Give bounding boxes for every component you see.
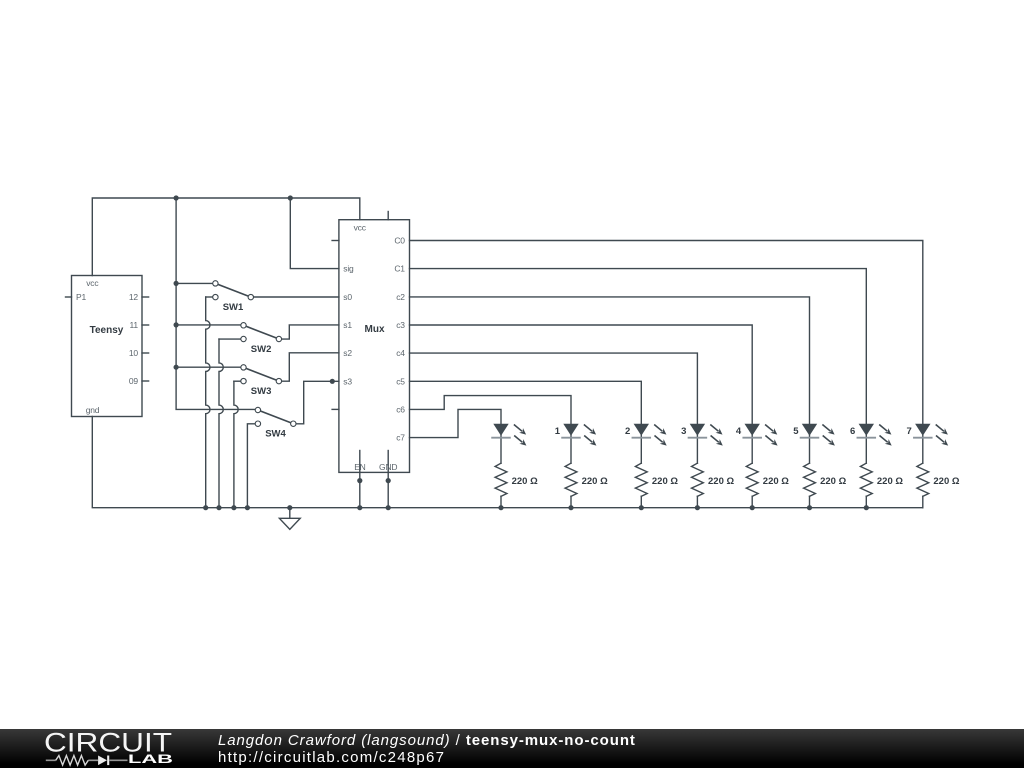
- svg-text:220 Ω: 220 Ω: [512, 476, 538, 487]
- svg-text:SW2: SW2: [251, 344, 272, 355]
- svg-text:220 Ω: 220 Ω: [877, 476, 903, 487]
- Mux top pin stub: [387, 212, 389, 220]
- wire bus to SW1 pole: [176, 282, 215, 284]
- wire SW1 common to Mux s0: [251, 296, 339, 298]
- wire resistor R8 to ground rail: [922, 496, 924, 508]
- junction ground rail / R4: [695, 505, 700, 510]
- junction ground rail / ground symbol: [287, 505, 292, 510]
- junction ground rail / R1: [498, 505, 503, 510]
- svg-text:vcc: vcc: [354, 222, 367, 232]
- IC P1 Teensy body: [72, 276, 143, 417]
- svg-text:09: 09: [129, 376, 139, 386]
- switch SW2 terminal circles: [241, 323, 246, 328]
- junction ground rail / SW4 wire: [245, 505, 250, 510]
- svg-text:vcc: vcc: [86, 278, 99, 288]
- Mux left pin stub (row 1): [332, 240, 339, 242]
- wire SW1 throw2 down to ground rail (hops): [206, 297, 210, 508]
- switch SW1 lever: [215, 283, 250, 297]
- wire bus to SW2 pole: [176, 324, 243, 326]
- wire SW4 common to Mux s3: [293, 381, 339, 424]
- svg-text:c7: c7: [396, 433, 405, 443]
- junction ground rail / R6: [807, 505, 812, 510]
- Teensy pin 10 stub: [142, 352, 149, 354]
- LED D5: [743, 424, 777, 446]
- wire Mux C0 to LED D8 column: [410, 241, 923, 464]
- wire vcc rail to Mux sig: [290, 198, 339, 269]
- Mux GND pin wire to ground rail: [387, 451, 389, 508]
- svg-text:SW1: SW1: [223, 302, 244, 313]
- svg-text:C0: C0: [394, 236, 405, 246]
- svg-text:2: 2: [625, 426, 630, 437]
- switch SW2 lever: [244, 325, 279, 339]
- svg-text:6: 6: [850, 426, 855, 437]
- svg-text:220 Ω: 220 Ω: [820, 476, 846, 487]
- CircuitLab logo: [0, 729, 210, 768]
- Mux left pin stub (row 7): [332, 408, 339, 410]
- wire Mux c6 to LED D2 column: [410, 396, 572, 464]
- IC Mux body: [339, 220, 410, 473]
- wire Teensy gnd to ground rail: [92, 417, 923, 508]
- svg-text:C1: C1: [394, 264, 405, 274]
- junction ground rail / R7: [864, 505, 869, 510]
- wire SW2 throw2 down to ground rail (hops): [219, 339, 223, 508]
- junction top rail / sig drop: [288, 195, 293, 200]
- svg-text:LAB: LAB: [128, 753, 173, 766]
- svg-text:5: 5: [793, 426, 799, 437]
- LED D7: [857, 424, 891, 446]
- resistor R2: [565, 463, 577, 496]
- wire Mux C1 to LED D7 column: [410, 269, 867, 464]
- svg-text:10: 10: [129, 348, 139, 358]
- junction EN pin end: [357, 478, 362, 483]
- wire SW1 throw2 to down-bus: [206, 296, 216, 298]
- wire SW4 throw2 down to ground rail: [247, 424, 258, 508]
- junction ground rail / SW3 wire: [231, 505, 236, 510]
- LED D2: [562, 424, 596, 446]
- svg-text:sig: sig: [343, 264, 354, 274]
- LED D6: [801, 424, 835, 446]
- wire Teensy vcc to Mux vcc (top rail): [92, 198, 360, 276]
- wire resistor R2 to ground rail: [570, 496, 572, 508]
- Teensy pin 09 stub: [142, 380, 149, 382]
- svg-text:220 Ω: 220 Ω: [582, 476, 608, 487]
- LED D8: [914, 424, 948, 446]
- footer credit text: [218, 732, 636, 767]
- svg-text:P1: P1: [76, 292, 86, 302]
- wire resistor R6 to ground rail: [809, 496, 811, 508]
- junction ground rail / R3: [639, 505, 644, 510]
- junction ground rail / SW1 wire: [203, 505, 208, 510]
- wire SW3 throw2 to down-bus: [234, 380, 244, 382]
- junction ground rail / EN: [357, 505, 362, 510]
- junction ground rail / R5: [750, 505, 755, 510]
- wire resistor R4 to ground rail: [696, 496, 698, 508]
- svg-text:3: 3: [681, 426, 686, 437]
- wire Mux c3 to LED D5 column: [410, 325, 753, 463]
- svg-text:Mux: Mux: [365, 324, 385, 335]
- svg-text:SW4: SW4: [265, 429, 286, 440]
- LED D3: [632, 424, 666, 446]
- svg-text:7: 7: [907, 426, 912, 437]
- ground symbol: [289, 508, 291, 519]
- junction GND pin end: [386, 478, 391, 483]
- svg-text:s2: s2: [343, 348, 352, 358]
- switch SW4 lever: [258, 410, 293, 424]
- svg-text:220 Ω: 220 Ω: [763, 476, 789, 487]
- wire SW3 throw2 down to ground rail (hops): [234, 381, 238, 508]
- logo resistor-diode glyph: [46, 759, 128, 761]
- svg-text:s1: s1: [343, 320, 352, 330]
- svg-text:s3: s3: [343, 376, 352, 386]
- wire SW3 common to Mux s2: [279, 353, 339, 381]
- svg-text:SW3: SW3: [251, 386, 272, 397]
- wire resistor R7 to ground rail: [865, 496, 867, 508]
- svg-text:Teensy: Teensy: [90, 325, 124, 336]
- resistor R8: [917, 463, 929, 496]
- svg-text:c6: c6: [396, 404, 405, 414]
- svg-text:c3: c3: [396, 320, 405, 330]
- junction bus/SW3: [174, 365, 179, 370]
- svg-text:220 Ω: 220 Ω: [708, 476, 734, 487]
- wire Mux c7 to LED D1 column: [410, 409, 502, 463]
- wire resistor R3 to ground rail: [640, 496, 642, 508]
- LED D4: [689, 424, 723, 446]
- junction top rail / switch bus: [174, 195, 179, 200]
- switch SW1 terminal circles: [213, 281, 218, 286]
- junction ground rail / SW2 wire: [216, 505, 221, 510]
- svg-text:s0: s0: [343, 292, 352, 302]
- resistor R6: [804, 463, 816, 496]
- Teensy pin 11 stub: [142, 324, 149, 326]
- svg-text:GND: GND: [379, 462, 397, 472]
- resistor R5: [746, 463, 758, 496]
- svg-text:c4: c4: [396, 348, 405, 358]
- Mux EN pin wire to ground rail: [359, 451, 361, 508]
- switch SW3 lever: [244, 367, 279, 381]
- svg-text:11: 11: [129, 320, 138, 330]
- svg-text:220 Ω: 220 Ω: [652, 476, 678, 487]
- wire vcc bus to switch poles: [176, 198, 258, 409]
- junction s3 pin end: [330, 379, 335, 384]
- wire SW2 common to Mux s1: [279, 325, 339, 339]
- svg-text:gnd: gnd: [86, 405, 100, 415]
- junction ground rail / GND: [386, 505, 391, 510]
- wire Mux c4 to LED D4 column: [410, 353, 698, 463]
- svg-text:220 Ω: 220 Ω: [933, 476, 959, 487]
- svg-text:c2: c2: [396, 292, 405, 302]
- svg-text:c5: c5: [396, 376, 405, 386]
- wire Mux c2 to LED D6 column: [410, 297, 810, 463]
- switch SW3 terminal circles: [241, 365, 246, 370]
- wire resistor R5 to ground rail: [751, 496, 753, 508]
- junction bus/SW1: [174, 281, 179, 286]
- svg-text:1: 1: [555, 426, 561, 437]
- svg-text:EN: EN: [354, 462, 365, 472]
- junction bus/SW2: [174, 322, 179, 327]
- LED D1: [492, 424, 526, 446]
- junction ground rail / R2: [568, 505, 573, 510]
- resistor R4: [692, 463, 704, 496]
- svg-text:4: 4: [736, 426, 742, 437]
- footer bar: [0, 729, 1024, 768]
- resistor R1: [495, 463, 507, 496]
- Teensy pin 12 stub: [142, 296, 149, 298]
- resistor R3: [635, 463, 647, 496]
- wire bus to SW3 pole: [176, 366, 243, 368]
- wire resistor R1 to ground rail: [500, 496, 502, 508]
- switch SW4 terminal circles: [255, 407, 260, 412]
- wire SW2 throw2 to down-bus: [219, 338, 244, 340]
- svg-text:12: 12: [129, 292, 139, 302]
- wire Mux c5 to LED D3 column: [410, 381, 642, 463]
- Teensy pin P1 stub (left): [66, 296, 72, 298]
- resistor R7: [860, 463, 872, 496]
